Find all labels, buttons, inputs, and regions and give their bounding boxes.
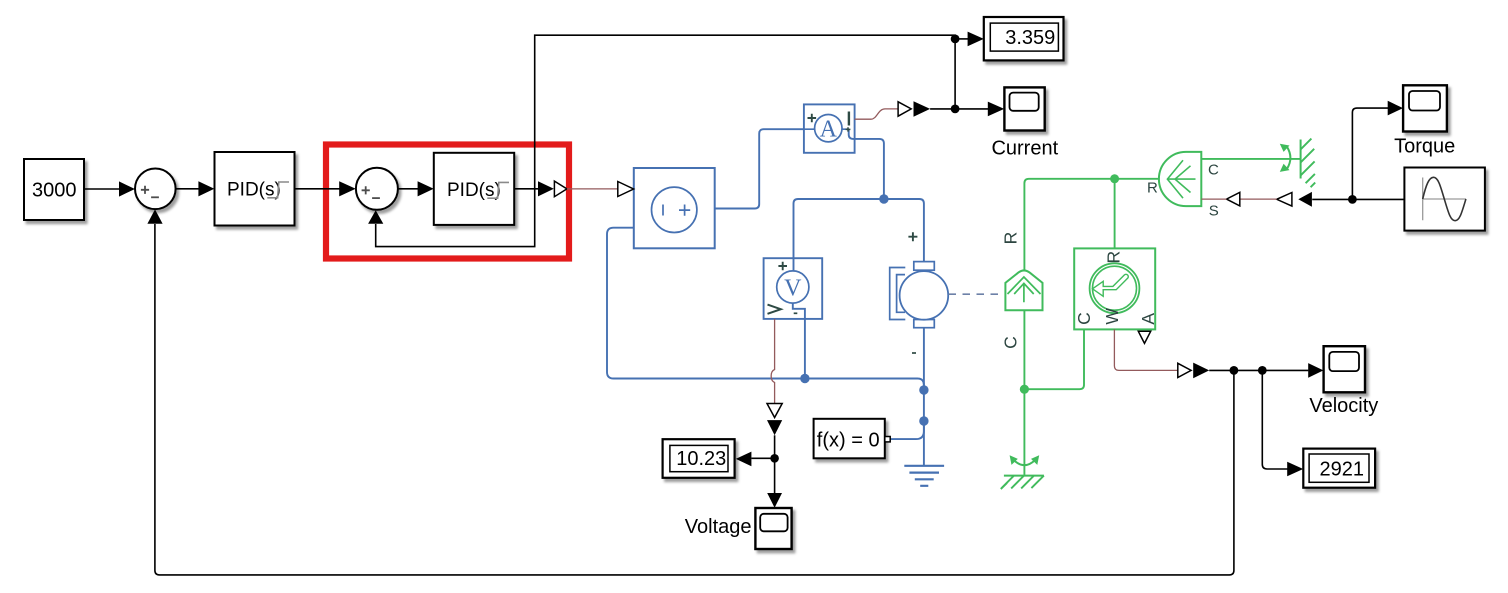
wire to display 10.23 xyxy=(751,457,774,459)
arrowhead into Sum1 xyxy=(119,181,135,196)
wire up to Torque scope xyxy=(1352,108,1388,199)
wire inertia to mech ground xyxy=(1023,310,1025,475)
PS port arrow at torque source S xyxy=(1227,192,1240,206)
wire Sum2 to PID2 xyxy=(398,188,418,190)
display block 3.359 xyxy=(984,17,1064,60)
PS-Simulink converter (voltage) xyxy=(767,404,782,418)
controlled current source block xyxy=(634,168,715,248)
wire torque source C to reference xyxy=(1201,158,1300,160)
sum junction Sum2 xyxy=(356,168,398,210)
wire to display 3.359 xyxy=(955,38,968,40)
PS wire converter to current source xyxy=(567,188,618,190)
display block 2921 xyxy=(1303,449,1375,488)
scope block Torque xyxy=(1403,85,1447,131)
voltage measurement wire xyxy=(774,435,776,458)
wire 3000 to Sum1 xyxy=(84,188,120,190)
PS-Simulink converter (velocity) xyxy=(1178,363,1191,377)
arrowhead into Voltage scope xyxy=(767,493,782,508)
sine wave wire to node xyxy=(1352,198,1403,200)
svg-text:S: S xyxy=(1209,203,1219,220)
wire current source to ground bus xyxy=(607,228,924,390)
red highlight box xyxy=(326,145,569,259)
svg-text:C: C xyxy=(1208,162,1219,179)
svg-text:R: R xyxy=(1001,232,1021,245)
voltmeter minus label xyxy=(794,312,798,314)
svg-text:R: R xyxy=(1147,180,1158,197)
wire PID1 to Sum2 xyxy=(295,188,340,190)
PS port arrow at current source xyxy=(618,182,634,197)
constant block 3000 xyxy=(24,159,84,220)
svg-text:V: V xyxy=(784,276,802,302)
junction dot green xyxy=(1020,385,1029,394)
arrowhead into PID2 xyxy=(418,181,434,196)
junction wire up to display xyxy=(954,39,956,109)
node dot xyxy=(951,105,960,114)
arrowhead after converter xyxy=(914,101,931,117)
svg-text:R: R xyxy=(1104,251,1124,264)
electrical reference ground xyxy=(904,466,944,486)
display block 10.23 xyxy=(663,439,735,478)
svg-text:C: C xyxy=(1074,312,1094,325)
svg-text:3000: 3000 xyxy=(32,179,77,201)
arrowhead into display 2921 xyxy=(1287,462,1303,477)
scope block Current xyxy=(1004,87,1044,130)
svg-text:Voltage: Voltage xyxy=(685,516,752,538)
arrowhead into display xyxy=(968,32,984,47)
arrowhead into display 10.23 xyxy=(736,452,752,467)
wire node to torque converter xyxy=(1312,198,1352,200)
arrowhead into Sum2 bottom xyxy=(368,210,383,224)
inertia block xyxy=(1005,270,1042,310)
DC motor terminals xyxy=(914,262,935,271)
PS stub to S port xyxy=(1201,198,1226,200)
arrowhead xyxy=(538,181,554,196)
svg-text:C: C xyxy=(1000,336,1020,349)
velocity wire to scope xyxy=(1209,369,1308,371)
arrowhead into Sum2 xyxy=(339,181,356,196)
sensor needle icon xyxy=(1093,274,1129,296)
wire to display 2921 xyxy=(1262,370,1287,469)
voltmeter plus label xyxy=(778,262,787,271)
f(x)=0 solver block xyxy=(814,419,891,459)
DC motor brushes xyxy=(890,268,906,320)
PS wire torque command xyxy=(1240,198,1277,200)
arrowhead into Torque scope xyxy=(1388,101,1403,116)
PID controller block PID1 xyxy=(215,152,295,226)
scope block Voltage xyxy=(755,508,791,549)
node dot xyxy=(951,35,960,44)
Simulink-PS converter triangle (control signal) xyxy=(554,181,567,197)
svg-text:10.23: 10.23 xyxy=(676,448,726,470)
node dot voltage xyxy=(770,454,779,463)
sensor A port arrow (unconnected) xyxy=(1138,331,1150,343)
ideal rotational motion sensor xyxy=(1074,248,1155,329)
wire motor minus to ground xyxy=(923,328,925,466)
PID controller block PID2 xyxy=(434,153,514,225)
scope block Velocity xyxy=(1324,346,1365,392)
ammeter minus port tick xyxy=(846,127,851,131)
svg-text:f(x) = 0: f(x) = 0 xyxy=(817,430,880,452)
svg-text:A: A xyxy=(1138,313,1158,325)
wire torque source R to inertia xyxy=(1024,179,1159,270)
junction dot green xyxy=(1110,174,1119,183)
shaft dashed connection xyxy=(949,293,1005,295)
Simulink-PS converter triangle (torque) xyxy=(1277,193,1292,207)
arrowhead into Velocity scope xyxy=(1308,363,1323,378)
svg-text:Current: Current xyxy=(991,137,1058,159)
svg-text:W: W xyxy=(1102,308,1122,325)
arrowhead into Current scope xyxy=(988,102,1004,117)
svg-text:2921: 2921 xyxy=(1320,458,1365,480)
wire sensor R up xyxy=(1114,179,1116,248)
PS-Simulink converter (current) xyxy=(898,102,911,116)
wire to Voltage scope xyxy=(774,458,776,493)
voltmeter PS port chevron xyxy=(768,305,781,314)
arrowhead after converter xyxy=(1193,363,1209,379)
svg-text:Velocity: Velocity xyxy=(1309,395,1378,417)
junction dot xyxy=(919,385,928,394)
PS wire sensor W output xyxy=(1114,329,1177,370)
svg-text:A: A xyxy=(820,117,838,143)
arrowhead into Sum1 bottom xyxy=(147,209,162,223)
DC motor body xyxy=(900,271,949,320)
ammeter I label xyxy=(848,112,850,126)
wire converter to Current scope xyxy=(930,108,988,110)
voltmeter minus wire xyxy=(793,303,805,378)
sine wave source block xyxy=(1404,168,1485,231)
arrowhead after converter xyxy=(767,420,782,435)
motor plus label xyxy=(908,232,917,241)
sum junction Sum1 xyxy=(135,169,176,210)
mechanical rotational reference top xyxy=(1280,139,1315,188)
arrowhead into PID1 xyxy=(198,181,214,196)
node dot velocity 1 xyxy=(1230,366,1239,375)
arrowhead pointing left xyxy=(1298,192,1312,207)
svg-text:Torque: Torque xyxy=(1394,135,1455,157)
top measurement wire with inner feedback to Sum2 xyxy=(376,35,955,246)
junction dot xyxy=(919,416,928,425)
junction dot xyxy=(879,194,888,203)
node dot velocity 2 xyxy=(1258,366,1267,375)
wire node to sensor C xyxy=(1024,329,1084,389)
junction dot xyxy=(800,374,809,383)
ammeter block xyxy=(804,104,855,152)
wire PID2 to converter xyxy=(514,188,538,190)
PS wire voltmeter output with hop over bus xyxy=(771,319,774,403)
wire current source to ammeter xyxy=(715,129,804,208)
voltmeter block xyxy=(764,258,823,319)
node dot torque xyxy=(1348,195,1357,204)
wire ammeter minus down to node xyxy=(849,129,884,199)
wire f(x)=0 to node xyxy=(890,421,924,439)
outer feedback wire (velocity to Sum1) xyxy=(155,224,1234,575)
ideal torque source xyxy=(1159,152,1201,206)
motor minus label xyxy=(912,352,916,354)
svg-text:3.359: 3.359 xyxy=(1005,27,1055,49)
wire Sum1 to PID1 xyxy=(176,188,199,190)
wire node bus voltmeter / motor plus xyxy=(794,199,924,271)
ammeter plus label xyxy=(808,114,817,123)
PS wire ammeter output xyxy=(855,109,898,119)
mechanical rotational reference bottom xyxy=(1001,455,1044,489)
